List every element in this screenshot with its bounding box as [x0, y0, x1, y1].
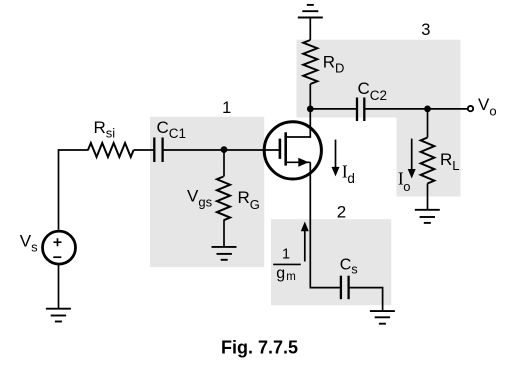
wire RG to ground: [223, 220, 225, 247]
wire node C to RL: [427, 109, 429, 138]
resistor RD: [303, 40, 317, 84]
node C junction dot: [424, 106, 431, 113]
wire RL to ground: [427, 184, 429, 210]
transistor Q1 drain lead: [286, 109, 311, 137]
wire source down: [310, 162, 341, 287]
transistor Q1 channel bar: [284, 132, 287, 165]
svg-text:Vo: Vo: [478, 95, 497, 119]
svg-text:2: 2: [337, 202, 346, 221]
svg-text:d: d: [347, 171, 355, 186]
wire RD to drain node: [309, 84, 311, 109]
wire drain node to CC2: [310, 108, 357, 110]
svg-text:1: 1: [222, 99, 231, 117]
current arrow Io: [411, 139, 413, 170]
transistor Q1 gate bar: [279, 139, 282, 159]
wire Cs to ground: [349, 288, 383, 312]
svg-text:m: m: [286, 271, 296, 283]
svg-text:Fig. 7.7.5: Fig. 7.7.5: [221, 338, 298, 358]
wire Rsi to CC1: [134, 149, 154, 151]
ground under Vs: [46, 309, 71, 322]
node region 2 shading: [271, 219, 391, 305]
ground under RG: [212, 247, 237, 260]
source Vs: [43, 231, 76, 264]
capacitor Cs: [340, 276, 342, 300]
wire input top from Vs to Rsi: [59, 150, 89, 230]
svg-text:3: 3: [421, 21, 430, 39]
svg-text:Rsi: Rsi: [94, 118, 116, 141]
transistor Q1 body circle: [264, 122, 321, 179]
resistor RG: [217, 177, 230, 221]
ground under RL: [415, 210, 440, 223]
svg-text:1: 1: [282, 246, 290, 262]
svg-text:o: o: [403, 179, 410, 194]
node region 1 shading: [150, 117, 264, 267]
plus sign of Vs: [54, 238, 62, 246]
resistor Rsi: [88, 143, 134, 157]
transistor Q1 source lead with arrow: [286, 161, 311, 163]
wire CC1 to gate: [163, 149, 280, 151]
ground top rail (inverted): [298, 5, 323, 18]
svg-text:g: g: [276, 265, 285, 282]
capacitor CC1: [153, 138, 155, 163]
resistor RL: [421, 138, 435, 184]
node A junction dot: [221, 146, 228, 153]
node region 3 shading: [297, 40, 461, 197]
output terminal Vo: [468, 106, 473, 111]
wire CC2 to output node: [364, 108, 467, 110]
ground under Cs: [370, 311, 395, 324]
svg-text:Vs: Vs: [20, 232, 38, 255]
wire Vs to ground: [58, 264, 60, 309]
capacitor CC2: [356, 98, 358, 122]
wire top rail to RD: [309, 18, 311, 41]
current arrow Id: [335, 140, 337, 168]
impedance arrow 1/gm: [304, 231, 306, 262]
wire node A to RG: [223, 150, 225, 177]
node B junction dot: [307, 106, 314, 113]
minus sign of Vs: [53, 256, 61, 258]
